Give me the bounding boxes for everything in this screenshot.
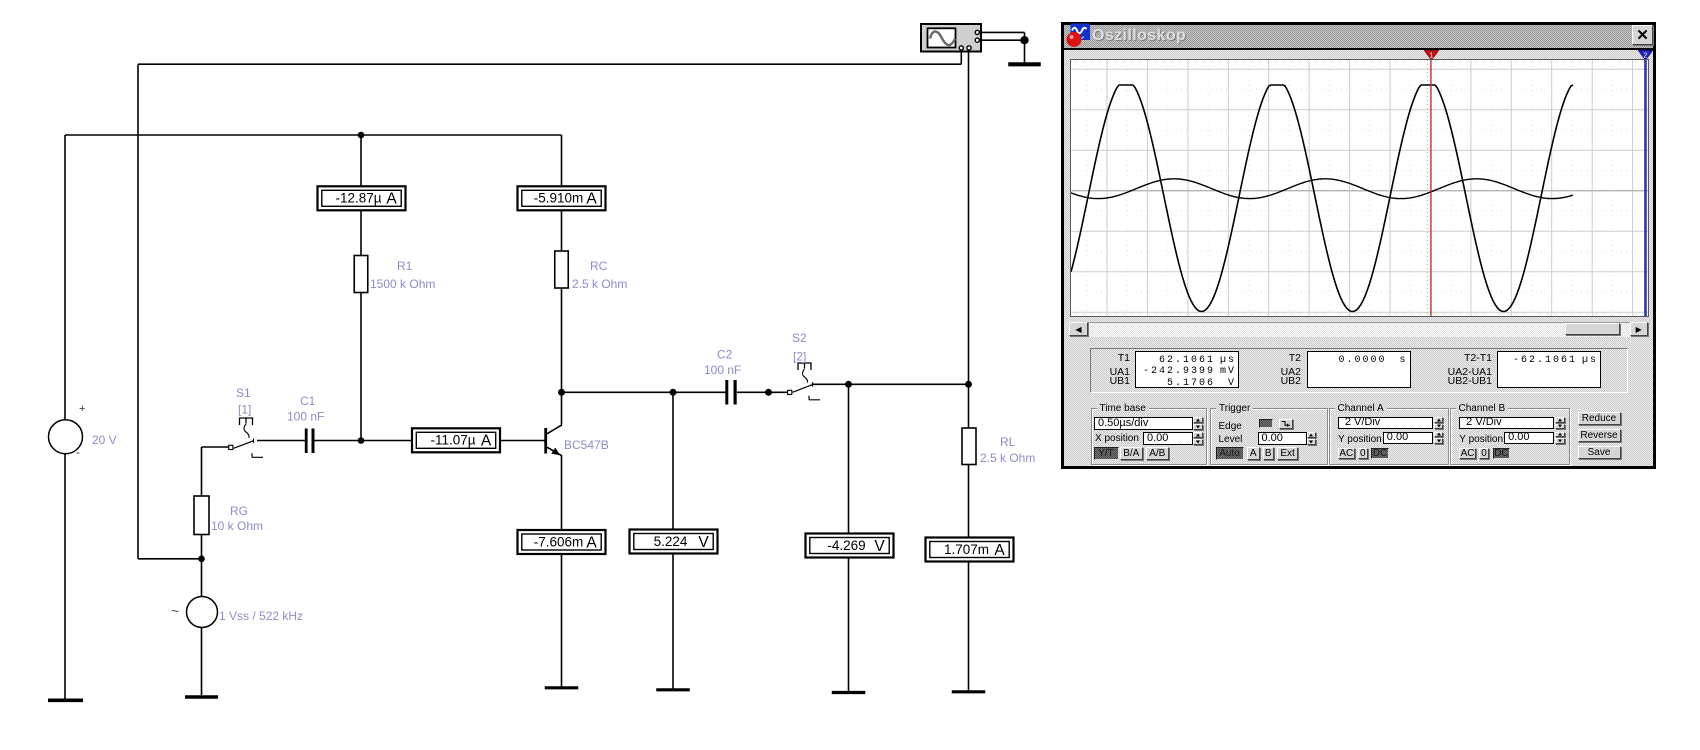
button Y/T — [1094, 447, 1119, 460]
ground voltmeter -4.269 — [832, 691, 866, 694]
svg-text:5.224: 5.224 — [654, 534, 688, 549]
button B/A — [1120, 447, 1143, 460]
svg-text:S2: S2 — [792, 331, 807, 345]
capacitor C1 plates — [305, 429, 315, 454]
button B AC — [1459, 448, 1476, 459]
svg-text:-5.910m: -5.910m — [534, 191, 584, 206]
channel B trace (clipped output sine) — [1071, 85, 1573, 312]
window icon (waveform + red ball) — [1066, 23, 1091, 48]
label X position — [1095, 433, 1139, 444]
resistor RG body — [194, 496, 209, 535]
wire C2 to S2 — [737, 391, 788, 393]
wire S1 to RG top — [201, 447, 203, 496]
X position field — [1143, 432, 1193, 445]
channel A scale spinner — [1434, 417, 1444, 430]
svg-text:-4.269: -4.269 — [827, 538, 865, 553]
cursor marker 2 (blue triangle) — [1638, 50, 1653, 61]
Level spinner — [1307, 432, 1317, 445]
svg-text:-12.87µ: -12.87µ — [335, 191, 381, 206]
svg-text:-7.606m: -7.606m — [534, 534, 584, 549]
svg-text:20 V: 20 V — [92, 433, 117, 447]
button Save — [1578, 446, 1621, 459]
node C2/S2 junction — [765, 389, 772, 396]
switch S2 — [788, 363, 820, 400]
svg-text:-11.07µ: -11.07µ — [430, 433, 475, 448]
scrollbar right arrow — [1630, 322, 1649, 336]
label Level — [1219, 434, 1243, 445]
svg-text:RL: RL — [1000, 435, 1016, 449]
X position spinner — [1193, 432, 1204, 445]
label Y position A — [1338, 434, 1382, 445]
wire battery bottom to ground — [64, 454, 66, 700]
svg-text:1: 1 — [1430, 52, 1434, 59]
voltmeter collector 5.224V — [630, 530, 718, 554]
node RL top junction — [965, 381, 972, 388]
ground emitter branch — [545, 686, 579, 689]
group Channel B — [1450, 408, 1570, 465]
button Reduce — [1578, 412, 1621, 425]
svg-text:1500 k Ohm: 1500 k Ohm — [370, 277, 435, 291]
resistor R1 body — [354, 256, 368, 293]
wire RC bottom to collector node — [561, 289, 563, 393]
wire R1 bottom to base node — [360, 293, 362, 441]
group Trigger — [1210, 408, 1328, 465]
wire scope right terminal 1 — [981, 31, 1025, 33]
wire AC source to ground — [201, 628, 203, 696]
wire battery top — [64, 135, 66, 420]
cursor marker 1 (red triangle) — [1424, 50, 1439, 61]
DC source 20 V circle — [49, 403, 86, 459]
svg-text:V: V — [698, 534, 709, 551]
node scope ground junction — [1020, 36, 1028, 44]
wire R1 branch top — [360, 135, 362, 187]
timebase value field — [1094, 417, 1193, 430]
scrollbar left arrow — [1069, 322, 1088, 336]
transistor Q1 BC547B — [544, 425, 562, 456]
group Time base — [1091, 408, 1208, 465]
wire RL top — [968, 384, 970, 428]
cursor 1 ghost line (olive dotted) — [1427, 60, 1429, 316]
svg-text:-: - — [76, 445, 80, 459]
svg-text:A: A — [586, 534, 597, 551]
wire S1 to C1 — [257, 440, 305, 442]
wire scope A terminal down — [960, 51, 962, 64]
wire left vertical x138 — [137, 64, 139, 559]
Y position B spinner — [1555, 432, 1565, 445]
channel A trace (small input sine) — [1071, 178, 1573, 198]
Y position A field — [1383, 432, 1433, 445]
title bar — [1064, 25, 1653, 48]
wire emitter down — [561, 456, 563, 531]
wire scope right terminal 2 — [981, 39, 1025, 41]
close button X — [1632, 25, 1653, 45]
wire scope B terminal down to RL node — [968, 52, 970, 385]
ground AC source — [185, 695, 218, 698]
wire C1 to base meter — [315, 440, 413, 442]
wire to voltmeter 5.224 — [672, 392, 674, 530]
wire collector node to C2 — [562, 391, 726, 393]
svg-text:2.5 k Ohm: 2.5 k Ohm — [980, 451, 1035, 465]
wire voltmeter to ground — [672, 554, 674, 689]
wire top horizontal to left — [138, 63, 961, 65]
button A AC — [1338, 448, 1355, 459]
node RG/source junction — [198, 556, 205, 563]
svg-text:[2]: [2] — [793, 350, 806, 364]
readout box 1 — [1135, 351, 1239, 388]
scrollbar thumb — [1565, 323, 1620, 335]
svg-text:2: 2 — [1644, 52, 1648, 59]
readout labels T2/UA2/UB2 — [1231, 352, 1301, 364]
svg-text:BC547B: BC547B — [564, 438, 609, 452]
wire voltmeter -4.269 to ground — [848, 558, 850, 691]
voltmeter output -4.269V — [806, 534, 894, 558]
svg-text:A: A — [994, 542, 1005, 559]
node output junction — [845, 381, 852, 388]
readout box 3 — [1497, 351, 1601, 388]
ground battery — [48, 698, 83, 702]
Level field — [1258, 432, 1307, 445]
button B DC — [1493, 448, 1511, 459]
svg-text:S1: S1 — [236, 386, 251, 400]
svg-text:1 Vss / 522 kHz: 1 Vss / 522 kHz — [219, 609, 303, 623]
channel B scale field — [1459, 417, 1554, 430]
svg-text:~: ~ — [171, 603, 179, 619]
svg-text:+: + — [79, 403, 85, 415]
wire meter to R1 — [360, 210, 362, 256]
wire to S1 left contact — [202, 446, 229, 448]
scope graticule minor dotted grid — [1071, 60, 1653, 316]
group Channel A — [1329, 408, 1449, 465]
svg-text:100 nF: 100 nF — [704, 363, 741, 377]
button A DC — [1371, 448, 1389, 459]
button Ext — [1277, 447, 1299, 460]
label Edge — [1219, 421, 1242, 432]
wire to RG bottom node — [138, 558, 202, 560]
wire S2 to RL node — [813, 383, 969, 385]
ground oscilloscope probe — [1008, 62, 1041, 66]
oscilloscope component icon — [921, 24, 981, 52]
Y position A spinner — [1434, 432, 1444, 445]
ammeter RL 1.707mA — [926, 538, 1014, 562]
timebase spinner — [1193, 417, 1204, 430]
wire meter to base — [500, 440, 545, 442]
svg-text:C1: C1 — [300, 394, 316, 408]
button Auto — [1216, 447, 1244, 460]
wire scope ground drop — [1024, 40, 1026, 62]
wire to voltmeter -4.269 — [848, 384, 850, 534]
button trigger A — [1247, 447, 1260, 460]
label Y position B — [1459, 434, 1503, 445]
svg-text:A: A — [586, 191, 597, 208]
svg-text:10 k Ohm: 10 k Ohm — [211, 519, 263, 533]
cursor 1 red line — [1430, 60, 1432, 316]
wire node to AC source — [201, 559, 203, 597]
wire meter to RL ground — [968, 562, 970, 691]
scope graticule major grid — [1071, 60, 1648, 316]
cursor 2 blue line at right — [1644, 60, 1647, 316]
wire emitter meter to ground — [561, 554, 563, 687]
svg-text:A: A — [481, 433, 492, 450]
svg-text:[1]: [1] — [238, 403, 251, 417]
capacitor C2 plates — [725, 380, 736, 405]
ammeter RC -5.910mA — [518, 186, 606, 210]
wire RG bottom — [201, 535, 203, 559]
readout box 2 — [1307, 351, 1411, 388]
svg-text:RC: RC — [590, 259, 608, 273]
readout panel — [1090, 348, 1628, 394]
wire RL to meter 1.707 — [968, 465, 970, 538]
wire scope terminal joint — [1024, 32, 1026, 40]
ammeter base -11.07uA — [412, 428, 500, 452]
channel B scale spinner — [1555, 417, 1565, 430]
channel A scale field — [1338, 417, 1433, 430]
ammeter R1 -12.87uA — [318, 186, 406, 210]
svg-text:C2: C2 — [717, 348, 733, 362]
wire collector up — [561, 392, 563, 424]
svg-text:V: V — [874, 538, 885, 555]
scrollbar track — [1069, 322, 1648, 337]
title bar bottom black line — [1064, 48, 1653, 50]
node base junction — [358, 437, 365, 444]
button Reverse — [1578, 429, 1621, 443]
scope display — [1071, 60, 1648, 316]
title text Oszilloskop — [1092, 27, 1186, 45]
switch S1 — [229, 418, 263, 457]
node collector junction — [558, 389, 565, 396]
readout labels T2-T1 — [1422, 352, 1492, 364]
AC source circle — [171, 597, 218, 628]
button edge rising (pressed) — [1259, 419, 1273, 428]
node R1 top junction — [358, 132, 365, 139]
readout labels T1/UA1/UB1 — [1060, 352, 1130, 364]
scope horizontal zero axis — [1071, 189, 1648, 191]
button A/B — [1146, 447, 1169, 460]
svg-text:1.707m: 1.707m — [944, 542, 989, 557]
wire supply rail y135 — [65, 134, 562, 136]
ground voltmeter 5.224 — [656, 688, 690, 691]
resistor RL body — [962, 428, 976, 465]
button A 0 — [1358, 448, 1368, 459]
button edge falling — [1279, 419, 1294, 429]
Y position B field — [1504, 432, 1554, 445]
node voltmeter junction — [670, 389, 677, 396]
svg-text:A: A — [386, 191, 397, 208]
svg-text:R1: R1 — [397, 259, 413, 273]
button trigger B — [1263, 447, 1275, 460]
svg-text:100 nF: 100 nF — [287, 410, 324, 424]
oscilloscope window frame — [1061, 22, 1656, 469]
wire RC branch top — [561, 135, 563, 187]
button B 0 — [1479, 448, 1489, 459]
ground RL branch — [952, 690, 986, 693]
resistor RC body — [555, 251, 569, 288]
ammeter emitter -7.606mA — [518, 530, 606, 554]
svg-text:2.5 k Ohm: 2.5 k Ohm — [572, 277, 627, 291]
svg-text:RG: RG — [230, 504, 248, 518]
wire meter to RC — [561, 210, 563, 252]
